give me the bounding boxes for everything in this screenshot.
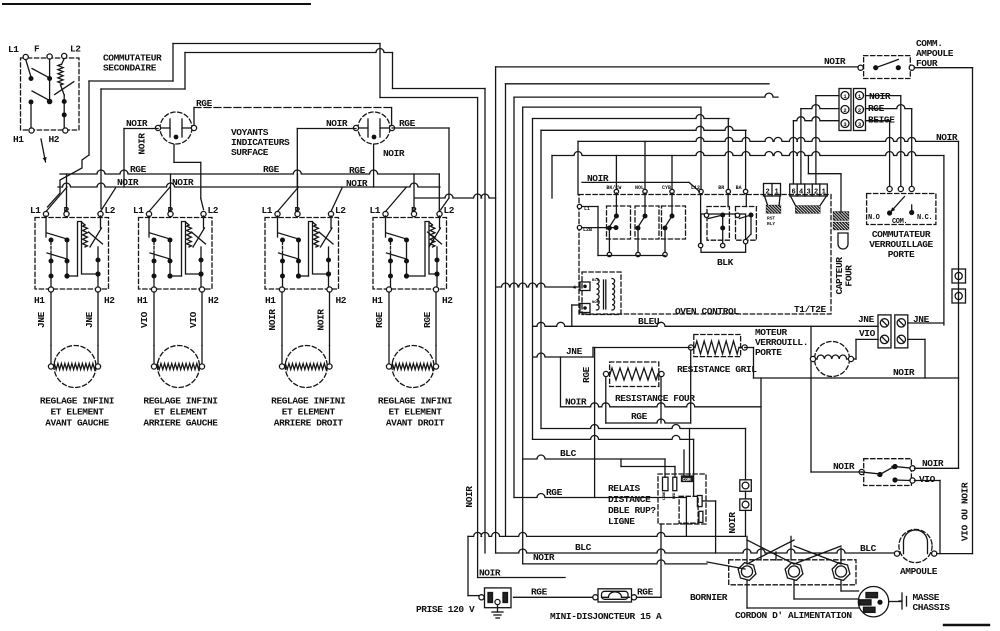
wire vio left (851, 339, 878, 359)
wire into strip rge (801, 105, 839, 184)
label noir DS1 (126, 118, 148, 129)
wire oven left L2B (582, 225, 619, 230)
svg-text:JNE: JNE (84, 311, 95, 328)
svg-text:MINI-DISJONCTEUR 15 A: MINI-DISJONCTEUR 15 A (550, 611, 662, 622)
wire noir under motor (754, 377, 959, 379)
svg-text:NOIR: NOIR (824, 56, 846, 67)
svg-text:JNE: JNE (858, 314, 875, 325)
wire corner 546 top (541, 126, 746, 130)
svg-text:NOIR: NOIR (464, 486, 475, 508)
label bus rge 1 (130, 164, 147, 175)
svg-text:VIO: VIO (919, 474, 936, 485)
wire bornier out 2 (794, 581, 859, 599)
hatch block sensor conn (796, 206, 820, 213)
wire noir into oven control (582, 182, 700, 191)
svg-text:COM.: COM. (892, 218, 907, 226)
svg-text:L1: L1 (8, 44, 19, 55)
svg-text:NOIR: NOIR (936, 132, 958, 143)
svg-text:NOIR: NOIR (479, 568, 501, 579)
svg-text:LINE: LINE (663, 491, 667, 500)
svg-text:NOIR: NOIR (833, 461, 855, 472)
svg-text:H2: H2 (49, 134, 60, 145)
label vio left (859, 328, 876, 339)
fan 6-1 (791, 196, 827, 206)
oven terminal left edge 2 (577, 225, 592, 233)
svg-text:1: 1 (822, 189, 826, 197)
svg-text:BLEU: BLEU (638, 316, 660, 327)
label bus rge 3 (349, 165, 366, 176)
svg-text:H1: H1 (137, 295, 148, 306)
resistance four (603, 362, 664, 387)
label bus noir 2 (172, 177, 194, 188)
wire DS1 left noir (124, 129, 158, 188)
wire relay feeds (621, 459, 675, 477)
label RGE unit 4 right (422, 311, 433, 328)
label rge DS2 (399, 118, 416, 129)
svg-text:RGE: RGE (531, 587, 548, 598)
label noir door right (922, 458, 944, 469)
wire y90 link (393, 88, 486, 90)
ampoule (894, 529, 936, 562)
label rge DS1 (196, 98, 213, 109)
label rge 499 (546, 487, 563, 498)
label NOIR unit 3 right (316, 309, 327, 331)
svg-text:L1: L1 (370, 205, 381, 216)
label jne gril (566, 346, 583, 357)
label cordon (735, 610, 852, 621)
wire bornier out 3 (841, 581, 859, 591)
svg-text:H2: H2 (336, 295, 347, 306)
connector strip jne/vio right (895, 315, 908, 348)
motor verrouillage porte (810, 342, 853, 377)
infinite switch unit 3 (rear-right) (262, 174, 347, 306)
bornier terminal 3 (832, 563, 850, 581)
oven left connector 1 (580, 282, 590, 291)
label bornier (690, 592, 728, 603)
wire into strip beige (793, 117, 839, 184)
infinite switch unit 2 (rear-left) (133, 174, 219, 306)
indicator lamp DS1 (155, 112, 196, 144)
svg-text:RGE: RGE (637, 587, 654, 598)
svg-text:2: 2 (858, 107, 861, 114)
surface element 2 (151, 346, 204, 388)
svg-text:F: F (34, 44, 40, 55)
svg-text:ET ELEMENT: ET ELEMENT (282, 407, 336, 418)
relay out square 1 (740, 480, 752, 492)
label bleu (638, 316, 660, 327)
wire bus 428 (541, 425, 746, 429)
svg-text:CORDON D' ALIMENTATION: CORDON D' ALIMENTATION (735, 610, 852, 621)
wire bornier out 1 (747, 581, 859, 608)
svg-text:ET ELEMENT: ET ELEMENT (50, 407, 104, 418)
svg-text:RESISTANCE GRIL: RESISTANCE GRIL (677, 364, 757, 375)
label bus rge 2 (263, 164, 280, 175)
svg-text:BA: BA (736, 185, 742, 191)
oven relay 3 (662, 193, 686, 257)
label noir under motor (893, 367, 915, 378)
right connector square 1 (952, 269, 966, 283)
svg-text:L2: L2 (208, 205, 219, 216)
svg-text:NOIR: NOIR (587, 173, 609, 184)
svg-text:COM: COM (683, 477, 691, 483)
wire bus 536 (468, 532, 746, 536)
svg-text:L2: L2 (335, 205, 346, 216)
svg-text:H1: H1 (34, 295, 45, 306)
label noir vertical relay (727, 512, 738, 534)
svg-text:NOIR: NOIR (383, 148, 405, 159)
label noir comm ampoule (824, 56, 846, 67)
svg-text:H1: H1 (13, 134, 24, 145)
label ampoule (900, 566, 938, 577)
relais distance dble rupture ligne (658, 474, 706, 524)
wire bus blc 552 (496, 549, 895, 553)
oven control terminal NOL (635, 141, 647, 193)
svg-text:L2: L2 (70, 44, 81, 55)
wire door sw right noir (915, 467, 959, 469)
wire DS1 right rge (194, 108, 392, 126)
svg-text:REGLAGE INFINI: REGLAGE INFINI (143, 396, 217, 407)
svg-text:PRISE 120 V: PRISE 120 V (416, 604, 475, 615)
svg-text:L2: L2 (105, 205, 116, 216)
label noir vertical left bundle (464, 486, 475, 508)
wire relay com feeds (684, 429, 690, 477)
svg-text:NOIR: NOIR (893, 367, 915, 378)
label jne right (913, 314, 930, 325)
wire relay square risers (745, 429, 747, 537)
wire bus 562 (523, 560, 707, 564)
switch verrouillage porte (867, 186, 936, 224)
wire hookA staircase (48, 155, 90, 207)
svg-text:BK/CW: BK/CW (606, 185, 621, 191)
svg-text:AMPOULE: AMPOULE (900, 566, 938, 577)
svg-text:SECONDAIRE: SECONDAIRE (103, 63, 157, 74)
infinite switch unit 4 (front-right) (370, 174, 455, 306)
fan 2-1 (765, 196, 781, 206)
svg-text:CYB: CYB (662, 185, 671, 191)
wire rge bus 422 (606, 350, 691, 423)
wire H1 unit 3 NOIR (281, 292, 283, 346)
capteur four sensor (834, 212, 849, 249)
wire hookD vert (392, 53, 394, 89)
switch actionne par porte (859, 459, 915, 486)
svg-text:DBLE RUP?: DBLE RUP? (608, 505, 656, 516)
wire corner 534 (532, 119, 534, 440)
label masse chassis (913, 592, 951, 613)
wire oven left L1 (582, 207, 598, 256)
svg-text:LIGNE: LIGNE (608, 516, 635, 527)
svg-text:NOIR: NOIR (117, 177, 139, 188)
wire bornier riser 3 (775, 552, 777, 560)
caption moteur verrouill porte (755, 327, 808, 358)
oven left connector 2 (580, 304, 590, 313)
surface element 1 (48, 346, 100, 388)
wire bus 439 (533, 435, 694, 496)
svg-text:FOUR: FOUR (844, 265, 855, 287)
svg-text:BLK: BLK (717, 257, 734, 268)
bornier terminal 1 (738, 563, 756, 581)
label mini-disjoncteur (550, 611, 662, 622)
svg-text:NOIR: NOIR (172, 177, 194, 188)
svg-text:NOL: NOL (635, 185, 644, 191)
svg-text:NOIR: NOIR (326, 118, 348, 129)
relay block BLK (698, 194, 756, 253)
svg-text:CHASSIS: CHASSIS (913, 602, 951, 613)
svg-text:BLC: BLC (560, 448, 577, 459)
svg-text:H1: H1 (265, 295, 276, 306)
svg-text:RED: RED (673, 492, 677, 499)
svg-text:VIO: VIO (139, 311, 150, 328)
connector strip jne/vio left (878, 315, 891, 348)
wire noir 577 horiz (478, 577, 565, 579)
wire bus rge 499 (514, 494, 686, 537)
svg-text:VIO OU NOIR: VIO OU NOIR (960, 482, 971, 541)
svg-text:NOIR: NOIR (922, 458, 944, 469)
svg-text:6: 6 (792, 189, 796, 197)
svg-text:L1: L1 (30, 205, 41, 216)
label beige strip (868, 115, 895, 126)
wire corner 578 (577, 141, 579, 194)
label noir strip (869, 91, 891, 102)
label blc 552 (575, 542, 592, 553)
wire hookC (379, 44, 381, 98)
label JNE unit 1 left (36, 311, 47, 328)
label rge 422 (631, 411, 648, 422)
wire strip out beige (866, 121, 890, 187)
connector strip P1 left (839, 89, 851, 131)
wire strip out noir (866, 96, 901, 187)
wire into strip noir (816, 96, 839, 184)
connector strip P1 right (854, 89, 866, 131)
svg-text:ET ELEMENT: ET ELEMENT (388, 407, 442, 418)
svg-text:RGE: RGE (130, 164, 147, 175)
svg-text:AVANT GAUCHE: AVANT GAUCHE (45, 418, 109, 429)
svg-text:REGLAGE INFINI: REGLAGE INFINI (378, 396, 452, 407)
label rst rly (767, 216, 775, 228)
wire ampoule right (937, 553, 973, 555)
wire H2 unit 4 RGE (435, 292, 437, 346)
label resistance four (615, 393, 695, 404)
wire hookA drop (88, 81, 90, 155)
svg-text:RLY: RLY (767, 221, 775, 227)
wire bus oven top 2 (552, 152, 944, 156)
svg-text:PORTE: PORTE (888, 249, 915, 260)
wire corner 495 top (496, 66, 860, 68)
label vio ou noir (960, 482, 971, 541)
hatch block rst (767, 206, 781, 213)
svg-text:L1: L1 (133, 205, 144, 216)
svg-text:RGE: RGE (546, 487, 563, 498)
wire bus NOIR (58, 183, 440, 187)
svg-text:REGLAGE INFINI: REGLAGE INFINI (40, 396, 114, 407)
svg-text:3: 3 (807, 189, 811, 197)
wire corner 552 (551, 156, 553, 199)
wire hookB top (185, 49, 393, 53)
svg-text:BLC: BLC (860, 543, 877, 554)
svg-text:VIO: VIO (859, 328, 876, 339)
label VIO unit 2 left (139, 311, 150, 328)
wire DS2 right rge (391, 108, 393, 126)
label jne left (858, 314, 875, 325)
wire H1 unit 4 RGE (388, 292, 390, 346)
wire jne to gril (533, 348, 691, 358)
svg-text:NOIR: NOIR (869, 91, 891, 102)
oven control terminal CYB (662, 156, 674, 194)
resistance gril (688, 335, 747, 357)
svg-text:RGE: RGE (196, 98, 213, 109)
label JNE unit 1 right (84, 311, 95, 328)
label noir DS2 (326, 118, 348, 129)
wire hookB left vert (184, 53, 186, 90)
label noir 562 (533, 552, 555, 563)
svg-text:NOIR: NOIR (267, 309, 278, 331)
label rge four vertical (581, 366, 592, 383)
wire capteur riser (808, 156, 841, 213)
svg-text:RGE: RGE (263, 164, 280, 175)
wire hookA left horiz (89, 80, 173, 82)
oven left tiny label (573, 279, 600, 305)
svg-text:ET ELEMENT: ET ELEMENT (154, 407, 208, 418)
caption element 2 (143, 396, 218, 429)
wire corner 523 (522, 107, 524, 564)
wire transformer feed 1 (496, 283, 580, 287)
wire H2 unit 2 VIO (201, 292, 203, 346)
svg-text:ARRIERE GAUCHE: ARRIERE GAUCHE (143, 418, 218, 429)
oven control terminal L12 (691, 107, 703, 194)
wire H2 unit 3 NOIR (329, 292, 331, 346)
wire corner 534 top (533, 115, 730, 119)
wire bornier diag 1 (747, 540, 794, 564)
label commutateur secondaire (103, 53, 162, 74)
wire DS1 bottom drop (174, 145, 204, 210)
svg-text:NOIR: NOIR (533, 552, 555, 563)
svg-text:L1: L1 (262, 205, 273, 216)
wire relay right out (703, 501, 716, 553)
svg-text:NOIR: NOIR (316, 309, 327, 331)
svg-text:H1: H1 (372, 295, 383, 306)
wire gril right drop (745, 348, 754, 379)
infinite switch unit 1 (front-left) (30, 174, 116, 306)
label blc 461 (560, 448, 577, 459)
label bus noir 3 (346, 178, 368, 189)
label comm ampoule four (916, 38, 954, 69)
label prise 120v (416, 604, 475, 615)
labels N.O. COM. N.C. (868, 214, 932, 226)
svg-text:RGE: RGE (868, 103, 885, 114)
svg-text:BR: BR (718, 185, 724, 191)
oven relay 1 (607, 193, 631, 257)
wire hookB left horiz (101, 88, 185, 90)
switch comm ampoule four (858, 56, 914, 79)
svg-text:DISTANCE: DISTANCE (608, 494, 651, 505)
wire door sw vio (915, 481, 941, 554)
wire bornier diag left (707, 562, 745, 569)
cordon plug (858, 587, 888, 617)
caption commutateur verrouillage porte (869, 229, 933, 260)
label RGE unit 4 left (374, 311, 385, 328)
svg-text:RGE: RGE (581, 366, 592, 383)
oven control box (579, 195, 831, 315)
label vio door (919, 474, 936, 485)
oven control terminal BR (718, 119, 730, 194)
label rge plug (531, 587, 548, 598)
label capteur four (834, 257, 855, 295)
masse chassis symbol (899, 593, 907, 609)
caption relais distance (608, 483, 656, 527)
wire right v944 (943, 156, 945, 326)
svg-text:OVEN CONTROL: OVEN CONTROL (675, 306, 739, 317)
wire DS2 left (297, 129, 356, 188)
svg-text:L2: L2 (444, 205, 455, 216)
svg-text:N.O: N.O (868, 214, 880, 222)
svg-text:JNE: JNE (566, 346, 583, 357)
wire breaker rge right (637, 524, 661, 597)
svg-text:REGLAGE INFINI: REGLAGE INFINI (271, 396, 345, 407)
surface element 3 (279, 346, 332, 388)
svg-text:NOIR: NOIR (565, 397, 587, 408)
wire transformer feed 2 (572, 305, 580, 326)
wire corner 495 (495, 67, 497, 553)
wire bus blc 461 (523, 455, 665, 459)
wire hookA left vert (172, 44, 174, 82)
label noir DS2b (383, 148, 405, 159)
wire jne right (908, 322, 944, 324)
svg-text:2: 2 (766, 189, 770, 197)
svg-text:BORNIER: BORNIER (690, 592, 728, 603)
wire bornier diag 4 (794, 546, 841, 564)
page bottom-right border line (944, 624, 989, 626)
wire right v958 (958, 141, 960, 468)
caption element 1 (40, 396, 114, 429)
svg-text:NOIR: NOIR (126, 118, 148, 129)
svg-text:SURFACE: SURFACE (231, 147, 269, 158)
wire L2-U4 to transformer feed (415, 194, 496, 198)
svg-text:RELAIS: RELAIS (608, 483, 641, 494)
svg-text:RGE: RGE (374, 311, 385, 328)
label VIO unit 2 right (188, 311, 199, 328)
svg-text:NOIR: NOIR (137, 133, 148, 155)
wire bornier riser 2 (760, 378, 762, 560)
wire hookC horiz (380, 97, 477, 99)
wire vio right (908, 339, 925, 378)
label rge breaker (637, 587, 654, 598)
terminal block 6-4-3-2-1 (790, 184, 828, 197)
wire rge drop four (594, 348, 596, 498)
svg-text:RGE: RGE (631, 411, 648, 422)
svg-text:4: 4 (573, 285, 576, 291)
wire corner 504 top (506, 83, 770, 85)
oven control terminal BA (736, 130, 748, 193)
caption element 4 (378, 396, 452, 429)
svg-text:N.C.: N.C. (917, 214, 932, 222)
label noir oven (587, 173, 609, 184)
svg-text:RGE: RGE (422, 311, 433, 328)
wire plug feed (468, 536, 479, 595)
wire bleu (533, 322, 878, 378)
wire noir bus 408 (561, 357, 762, 407)
wire door sw left noir (811, 378, 862, 472)
svg-text:H2: H2 (442, 295, 453, 306)
svg-text:ARRIERE DROIT: ARRIERE DROIT (274, 418, 344, 429)
wire hookA top (173, 43, 380, 45)
svg-text:RGE: RGE (349, 165, 366, 176)
terminal block 2-1 (764, 184, 781, 197)
transformer T1 (582, 272, 621, 315)
svg-text:BEIGE: BEIGE (868, 115, 895, 126)
svg-text:2: 2 (814, 189, 818, 197)
svg-text:BLC: BLC (575, 542, 592, 553)
svg-text:VIO: VIO (188, 311, 199, 328)
wire corner 513 (513, 97, 515, 497)
